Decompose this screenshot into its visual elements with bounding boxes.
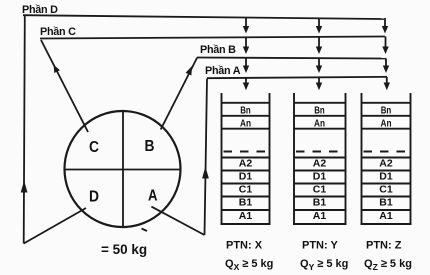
- wire: diagonal B from circle to line B: [161, 58, 198, 130]
- arrowhead up on left vertical: [21, 181, 28, 193]
- column X rack: [221, 93, 271, 224]
- svg-text:PTN: Y: PTN: Y: [302, 240, 339, 252]
- wire: diagonal D from circle to bottom-left corner: [24, 208, 86, 244]
- svg-text:Bn: Bn: [314, 105, 325, 117]
- svg-text:A2: A2: [239, 158, 253, 170]
- svg-text:A2: A2: [379, 158, 393, 170]
- wire: line A horizontal: [207, 77, 387, 78]
- svg-text:B1: B1: [313, 197, 327, 209]
- wire: line B horizontal: [197, 58, 386, 59]
- svg-text:PTN: Z: PTN: Z: [366, 240, 402, 252]
- svg-text:Phần C: Phần C: [40, 26, 76, 38]
- svg-text:C1: C1: [379, 184, 393, 196]
- wire: left vertical (D feed): [24, 16, 25, 244]
- arrowhead up-left on diagonal C: [54, 65, 60, 74]
- svg-text:Bn: Bn: [240, 105, 251, 117]
- svg-text:B1: B1: [379, 197, 393, 209]
- arrowhead up-right on diagonal B: [186, 66, 192, 76]
- wire: diagonal A from circle to bottom corner: [151, 207, 204, 235]
- svg-text:An: An: [240, 118, 251, 130]
- svg-text:= 50 kg: = 50 kg: [101, 242, 147, 257]
- svg-text:D1: D1: [239, 171, 253, 183]
- svg-text:QZ ≥ 5 kg: QZ ≥ 5 kg: [364, 258, 412, 272]
- wire: line D horizontal: [23, 15, 384, 19]
- wire: vertical diameter: [122, 111, 124, 227]
- svg-text:Phần B: Phần B: [200, 44, 236, 56]
- wire: diagonal C from circle to label: [41, 40, 88, 132]
- svg-text:A: A: [148, 188, 158, 205]
- column Y labels: [313, 105, 327, 223]
- chained down arrows at column 1 (x=246): [243, 17, 249, 90]
- svg-text:An: An: [381, 118, 392, 130]
- svg-text:QX ≥ 5 kg: QX ≥ 5 kg: [225, 258, 273, 272]
- chained down arrows at column 2 (x=319): [316, 18, 322, 91]
- svg-text:Bn: Bn: [381, 105, 392, 117]
- scan tick below circle: [142, 229, 148, 232]
- svg-text:D1: D1: [313, 171, 327, 183]
- circle (mass = 50 kg): [65, 111, 181, 227]
- svg-text:An: An: [314, 118, 325, 130]
- svg-text:A1: A1: [379, 210, 393, 222]
- wire: line C horizontal: [40, 37, 385, 39]
- column Z labels: [379, 105, 393, 223]
- svg-text:D: D: [89, 189, 99, 206]
- svg-text:D1: D1: [379, 171, 393, 183]
- svg-text:Phần D: Phần D: [22, 4, 58, 16]
- arrowhead up on A vertical: [202, 167, 209, 179]
- column Y rack: [293, 93, 347, 224]
- svg-text:B: B: [145, 138, 155, 155]
- svg-text:QY ≥ 5 kg: QY ≥ 5 kg: [300, 258, 348, 272]
- column X labels: [239, 105, 253, 223]
- svg-text:A2: A2: [313, 158, 327, 170]
- svg-text:Phần A: Phần A: [205, 65, 241, 77]
- chained down arrows at column 3 (x=386, line right ends): [382, 18, 390, 90]
- wire: right vertical (A feed): [205, 79, 208, 236]
- column Z rack: [361, 93, 412, 224]
- svg-text:PTN: X: PTN: X: [226, 240, 263, 252]
- wire: horizontal diameter: [65, 169, 181, 171]
- svg-text:C1: C1: [239, 184, 253, 196]
- svg-text:A1: A1: [313, 210, 327, 222]
- svg-text:C1: C1: [313, 184, 327, 196]
- svg-text:C: C: [89, 139, 99, 156]
- svg-text:B1: B1: [239, 197, 253, 209]
- svg-text:A1: A1: [239, 210, 253, 222]
